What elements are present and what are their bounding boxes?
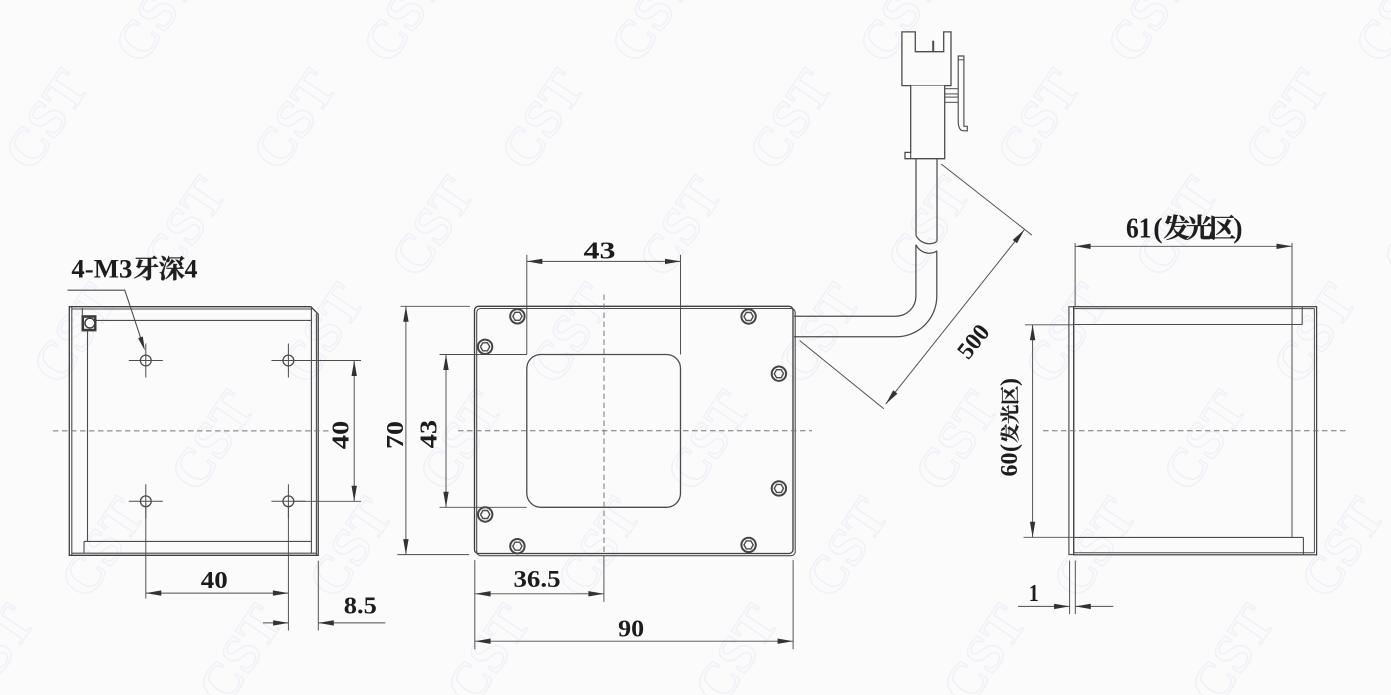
left view inner panel lines — [87, 331, 89, 541]
svg-text:): ) — [997, 378, 1023, 386]
middle view screw top-left — [510, 309, 524, 323]
right view horizontal centerline — [1043, 430, 1347, 432]
connector pin — [932, 41, 934, 52]
connector side tabs — [945, 88, 959, 90]
dim 8.5 extension line — [317, 561, 319, 631]
dim 36.5 line — [475, 593, 604, 595]
right view diffuser plate — [1069, 307, 1074, 555]
middle view screw left-upper — [478, 340, 492, 354]
leader line to screw hole — [68, 290, 143, 344]
middle view screw bottom-left — [510, 539, 524, 553]
dim 60 line — [1032, 325, 1034, 538]
right view inner bottom line — [1075, 536, 1304, 538]
dim 40 vertical extension lines — [294, 360, 361, 362]
dim 43 left text — [417, 420, 443, 449]
connector body — [905, 86, 945, 159]
dim 43 top line — [527, 260, 681, 262]
svg-text:43: 43 — [584, 238, 616, 264]
svg-text:70: 70 — [383, 421, 409, 449]
middle view vertical centerline — [603, 295, 605, 557]
dim 90 line — [475, 640, 793, 642]
connector head — [902, 32, 951, 86]
svg-text:36.5: 36.5 — [514, 567, 561, 593]
dim 70 extension lines — [401, 305, 471, 307]
svg-text:40: 40 — [201, 568, 228, 594]
left view screw hole bottom-left — [140, 496, 151, 507]
dim 1 extension lines — [1069, 561, 1071, 615]
connector latch clip — [958, 56, 967, 131]
left view cable entry square — [83, 317, 95, 331]
dim 43 left line — [445, 355, 447, 508]
svg-text:1: 1 — [1029, 581, 1039, 607]
svg-text:(: ( — [1153, 214, 1162, 245]
left view screw hole bottom-right — [283, 496, 294, 507]
dim 40 bottom extension lines — [145, 507, 147, 599]
dim 40 vertical line — [353, 361, 355, 502]
svg-text:(: ( — [997, 444, 1023, 452]
middle view screw right-lower — [772, 481, 786, 495]
dim 61 extension line left — [1074, 243, 1076, 307]
right view inner right line — [1291, 243, 1293, 537]
dim 40 vertical text — [329, 421, 355, 450]
cable from housing to connector — [794, 245, 937, 337]
middle view screw bottom-right — [741, 538, 755, 552]
left view outer housing outline — [69, 307, 318, 556]
svg-text:4-M3: 4-M3 — [71, 255, 132, 284]
dim 70 text — [383, 421, 409, 449]
svg-text:60: 60 — [997, 453, 1023, 477]
left view screw hole top-left — [140, 355, 151, 366]
svg-text:43: 43 — [417, 420, 443, 449]
dim 60 extension lines — [1025, 324, 1074, 326]
svg-text:8.5: 8.5 — [344, 594, 377, 620]
middle view screw left-lower — [478, 507, 492, 521]
svg-text:): ) — [1233, 214, 1242, 245]
dim 70 line — [405, 306, 407, 554]
dim 1 lines — [1018, 605, 1070, 607]
middle view screw right-upper — [772, 367, 786, 381]
right view housing outline — [1074, 307, 1317, 555]
dim 40 bottom line — [146, 592, 289, 594]
middle view screw top-right — [741, 309, 755, 323]
middle view horizontal centerline — [458, 430, 812, 432]
dim 500 text — [953, 320, 996, 364]
left view horizontal centerline — [53, 430, 332, 432]
dim 43 top extension lines — [526, 255, 528, 355]
dim 500 line — [886, 230, 1025, 405]
left view screw hole top-right — [283, 355, 294, 366]
svg-text:4: 4 — [185, 255, 198, 284]
right view inner top line — [1075, 324, 1303, 326]
dim 8.5 lines — [263, 622, 289, 624]
svg-text:90: 90 — [618, 616, 644, 642]
svg-text:61: 61 — [1126, 214, 1152, 245]
dim 36.5 extension line left — [474, 560, 476, 649]
dim 500 extension lines — [800, 341, 884, 409]
svg-text:40: 40 — [329, 421, 355, 450]
dim 61 line — [1075, 245, 1292, 247]
middle view light window — [527, 355, 681, 508]
dim 60 text rotated — [997, 378, 1023, 477]
dim 43 left extension lines — [440, 354, 527, 356]
middle view housing outline — [475, 306, 794, 553]
dim 90 extension line right — [792, 560, 794, 649]
